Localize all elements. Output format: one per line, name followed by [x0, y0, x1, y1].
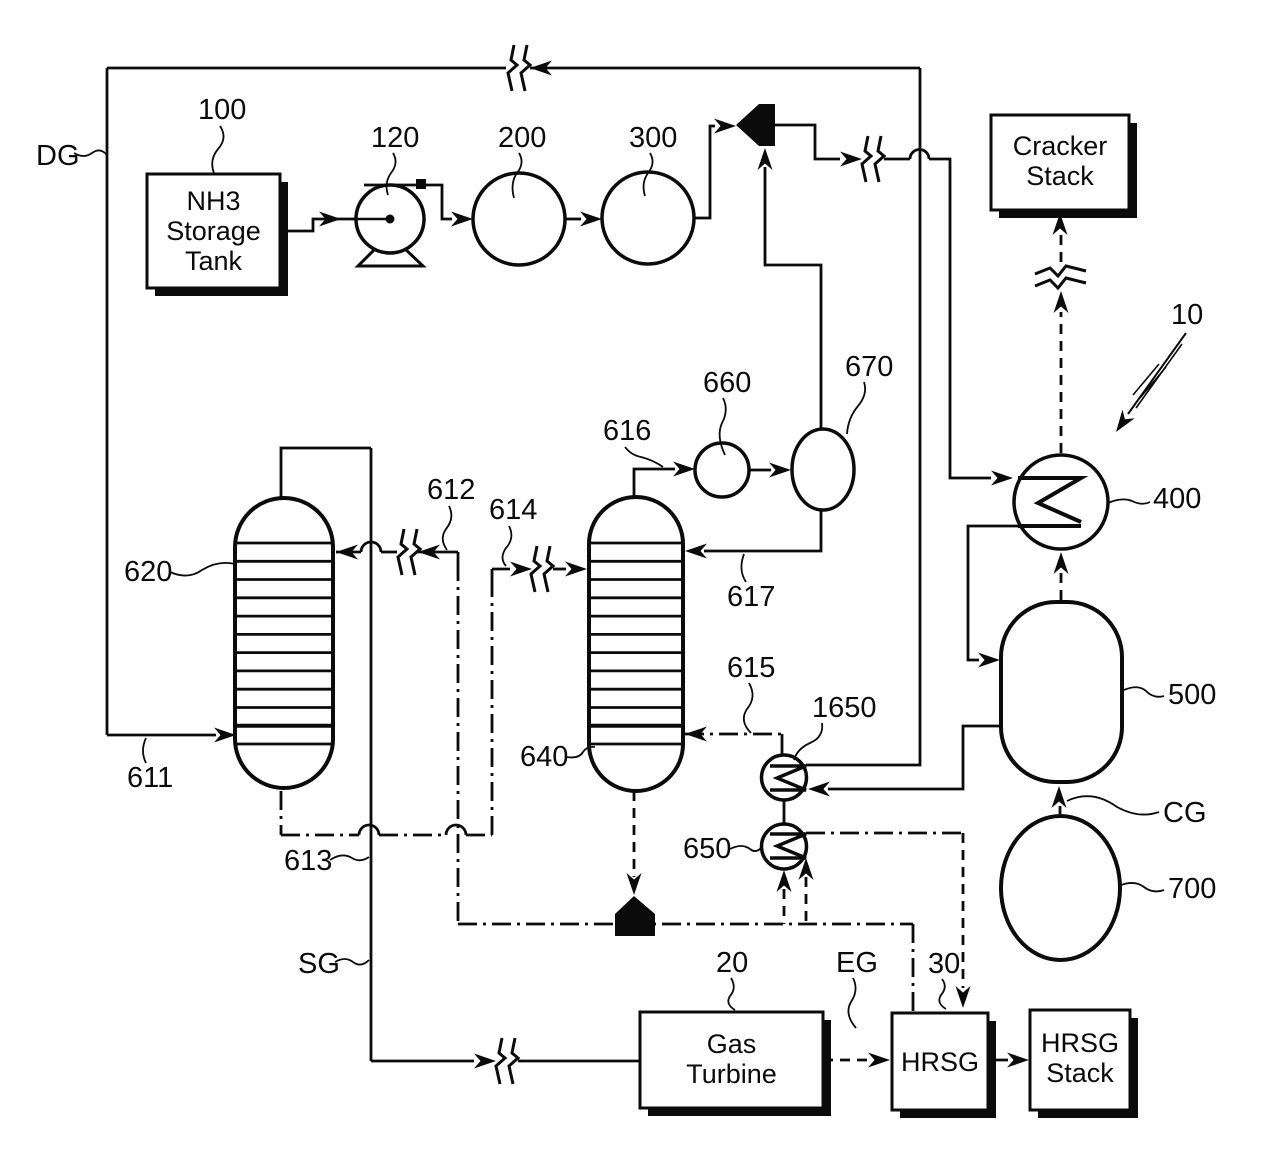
- wire dashed gas line 500 top to exchanger 400: [1054, 552, 1069, 600]
- wire vessel 200 to vessel 300: [565, 212, 602, 227]
- wire riser from oval 670 to valve bottom: [758, 148, 822, 429]
- svg-text:300: 300: [629, 122, 677, 154]
- label 300: [629, 122, 677, 196]
- label 640: [520, 741, 595, 773]
- wire SG bottom run to Gas Turbine (with break): [371, 1038, 640, 1084]
- box Cracker Stack: [991, 115, 1137, 218]
- box HRSG: [892, 1013, 996, 1118]
- label 650: [683, 833, 762, 865]
- svg-text:620: 620: [124, 556, 172, 588]
- vessel 700: [1001, 816, 1120, 960]
- wire DG vertical line x=107: [106, 68, 109, 735]
- label 612: [427, 474, 475, 550]
- svg-text:Stack: Stack: [1026, 161, 1094, 191]
- wire 650 heat supply dash-dot to HRSG: [806, 833, 971, 1008]
- svg-text:120: 120: [371, 122, 419, 154]
- pump 120: [352, 185, 424, 266]
- svg-text:660: 660: [703, 367, 751, 399]
- wire valve outlet to heat exchanger 400 (break + hop over x=920): [775, 125, 1013, 486]
- wire column 640 top to circle 660: [634, 462, 695, 498]
- svg-text:670: 670: [845, 351, 893, 383]
- label 700: [1121, 873, 1216, 905]
- column 640: [589, 497, 683, 791]
- wire NH3 tank outlet to pump 120: [280, 212, 395, 232]
- svg-text:617: 617: [727, 581, 775, 613]
- wire exchanger 1650 to 650: [783, 800, 786, 824]
- wire dashed gas line exchanger 400 to Cracker Stack (break): [1035, 213, 1086, 453]
- label 615: [727, 652, 775, 733]
- wire exchanger 400 cooled outlet to separator 500: [968, 526, 1020, 668]
- flare triangle (black) on manifold: [615, 896, 655, 936]
- svg-text:650: 650: [683, 833, 731, 865]
- svg-text:1650: 1650: [812, 692, 877, 724]
- label 614: [489, 494, 537, 566]
- label 30: [928, 948, 960, 1009]
- label 1650: [794, 692, 877, 760]
- svg-text:DG: DG: [36, 140, 80, 172]
- svg-text:615: 615: [727, 652, 775, 684]
- wires under exchanger 650 from manifold: [777, 858, 814, 924]
- wire recycle main x=920 from header down to exchanger 1650: [806, 68, 920, 765]
- svg-text:400: 400: [1153, 483, 1201, 515]
- svg-text:611: 611: [127, 762, 173, 794]
- label 670: [845, 351, 893, 434]
- wire 611 feed line into column 620: [107, 728, 236, 743]
- wire 614 dash-dot vertical x=492: [491, 580, 494, 835]
- wire column 640 bottom drain to flare triangle: [627, 791, 642, 895]
- wire top header line y=68 from DG corner to x=920 (with break): [107, 45, 920, 91]
- label 611: [127, 738, 173, 794]
- svg-text:CG: CG: [1163, 797, 1207, 829]
- svg-text:HRSG: HRSG: [1041, 1028, 1119, 1058]
- svg-text:500: 500: [1168, 679, 1216, 711]
- wire dash-dot bottom manifold y=925: [458, 924, 913, 1013]
- valve (black) at top: [736, 104, 775, 146]
- svg-text:20: 20: [716, 947, 748, 979]
- wire 615 dash-dot into column 640 right side: [685, 727, 782, 758]
- svg-text:612: 612: [427, 474, 475, 506]
- label 617: [727, 554, 775, 613]
- label EG: [836, 947, 878, 1028]
- oval 670: [792, 429, 854, 510]
- label 10 with lightning arrow: [1110, 299, 1203, 436]
- svg-text:614: 614: [489, 494, 537, 526]
- svg-text:30: 30: [928, 948, 960, 980]
- wire vessel 300 up to valve: [694, 119, 736, 219]
- wire column 620 top loop to SG line: [281, 448, 371, 498]
- wire 612 line into column 620 (break + hop over SG line): [336, 529, 458, 575]
- svg-text:Turbine: Turbine: [686, 1059, 777, 1089]
- wire HRSG to HRSG Stack: [988, 1053, 1029, 1068]
- box NH3 Storage Tank: [147, 174, 288, 296]
- svg-text:700: 700: [1168, 873, 1216, 905]
- wire separator 500 side draw to exchanger 1650: [808, 726, 1001, 797]
- svg-text:Gas: Gas: [707, 1029, 757, 1059]
- label 616: [603, 415, 663, 467]
- label 660: [703, 367, 751, 455]
- svg-text:Storage: Storage: [166, 216, 261, 246]
- wire dashed gas line 700 top to 500 bottom: [1052, 786, 1067, 814]
- heat exchanger 1650: [762, 755, 807, 800]
- circle 660: [695, 443, 749, 497]
- wire circle 660 to oval 670: [749, 463, 791, 478]
- label 613: [284, 845, 369, 877]
- label 20: [716, 947, 748, 1010]
- vessel 300: [602, 172, 694, 264]
- wire 613/614 dash-dot from column 620 bottom: [281, 791, 492, 835]
- svg-text:Tank: Tank: [185, 246, 243, 276]
- column 620: [235, 498, 333, 788]
- wire SG vertical line x=371: [370, 448, 373, 1061]
- svg-text:613: 613: [284, 845, 332, 877]
- svg-text:EG: EG: [836, 947, 878, 979]
- wire EG dashed line Gas Turbine to HRSG: [823, 1053, 890, 1068]
- label SG: [298, 948, 369, 980]
- svg-text:616: 616: [603, 415, 651, 447]
- label DG: [36, 140, 107, 172]
- vessel 200: [473, 173, 565, 265]
- wire 612 dash-dot vertical x=458: [457, 552, 460, 562]
- label CG: [1067, 796, 1207, 829]
- label 100: [198, 94, 246, 173]
- label 120: [371, 122, 419, 195]
- wire pump 120 top discharge to vessel 200: [364, 179, 473, 227]
- label 400: [1108, 483, 1201, 515]
- separator 500: [1001, 602, 1122, 782]
- svg-text:100: 100: [198, 94, 246, 126]
- heat exchanger 400: [1014, 455, 1108, 549]
- svg-text:Stack: Stack: [1046, 1058, 1114, 1088]
- svg-text:640: 640: [520, 741, 568, 773]
- heat exchanger 650: [762, 824, 807, 869]
- label 500: [1124, 679, 1216, 711]
- svg-text:200: 200: [498, 122, 546, 154]
- wire 614 feed into column 640 (break): [492, 546, 587, 592]
- svg-text:NH3: NH3: [186, 186, 240, 216]
- wire 617 oval 670 bottom to column 640: [685, 510, 821, 559]
- box Gas Turbine: [640, 1012, 831, 1116]
- svg-text:Cracker: Cracker: [1013, 131, 1108, 161]
- label 200: [498, 122, 546, 198]
- svg-text:HRSG: HRSG: [901, 1047, 979, 1077]
- svg-text:SG: SG: [298, 948, 340, 980]
- svg-text:10: 10: [1171, 299, 1203, 331]
- label 620: [124, 556, 235, 588]
- box HRSG Stack: [1030, 1010, 1138, 1118]
